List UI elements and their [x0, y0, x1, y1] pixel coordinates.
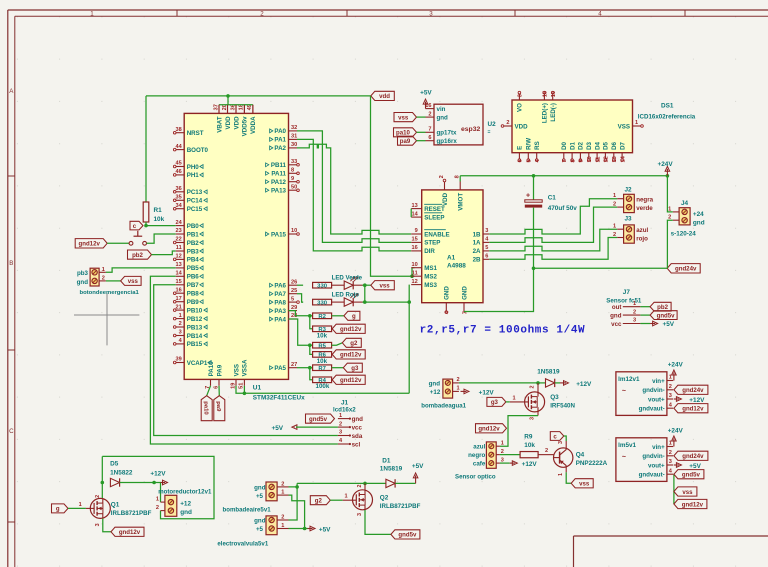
svg-text:+24V: +24V: [668, 361, 684, 368]
svg-text:lcd16x2: lcd16x2: [333, 407, 356, 414]
svg-text:azul: azul: [636, 227, 648, 234]
svg-text:PA12: PA12: [271, 179, 287, 186]
svg-text:PB5: PB5: [187, 265, 200, 272]
svg-text:vcc: vcc: [352, 425, 363, 432]
svg-text:PA6: PA6: [274, 283, 286, 290]
svg-text:PB13: PB13: [187, 324, 203, 331]
svg-text:vcc: vcc: [611, 321, 622, 328]
svg-text:J3: J3: [625, 216, 633, 223]
svg-text:3: 3: [485, 228, 488, 234]
svg-text:VDD: VDD: [225, 116, 232, 130]
svg-text:1: 1: [179, 313, 182, 319]
svg-text:VDD5v: VDD5v: [242, 116, 249, 137]
svg-text:PB7: PB7: [187, 282, 200, 289]
svg-text:3: 3: [558, 441, 564, 444]
svg-text:50: 50: [291, 184, 297, 190]
svg-text:2: 2: [613, 232, 616, 238]
svg-text:+5V: +5V: [663, 321, 675, 328]
svg-text:2: 2: [281, 481, 284, 487]
svg-text:PA15: PA15: [271, 231, 287, 238]
svg-text:3: 3: [429, 10, 433, 17]
svg-text:32: 32: [291, 125, 297, 131]
svg-text:+12V: +12V: [576, 381, 592, 388]
svg-text:+24V: +24V: [668, 427, 684, 434]
svg-text:+5: +5: [256, 526, 264, 533]
svg-text:vout+: vout+: [648, 396, 665, 403]
svg-text:bombadeaire5v1: bombadeaire5v1: [223, 506, 272, 513]
svg-text:r2,r5,r7 = 100ohms 1/4W: r2,r5,r7 = 100ohms 1/4W: [420, 325, 586, 337]
svg-text:vss: vss: [379, 283, 390, 290]
svg-text:motoreductor12v1: motoreductor12v1: [158, 488, 212, 495]
svg-text:10: 10: [411, 262, 417, 268]
svg-text:10k: 10k: [154, 216, 165, 223]
svg-text:lm5v1: lm5v1: [618, 442, 636, 449]
svg-text:vin+: vin+: [652, 378, 665, 385]
svg-text:VMOT: VMOT: [458, 193, 465, 211]
svg-text:+5: +5: [256, 493, 264, 500]
svg-text:R9: R9: [524, 434, 533, 441]
svg-text:44: 44: [175, 144, 182, 150]
svg-text:8: 8: [570, 159, 576, 162]
svg-text:gndvin-: gndvin-: [642, 387, 664, 394]
svg-text:3: 3: [357, 513, 363, 516]
svg-text:VSSA: VSSA: [242, 359, 249, 376]
svg-text:PH1: PH1: [187, 172, 200, 179]
svg-text:J2: J2: [625, 187, 633, 194]
svg-text:gnd: gnd: [180, 509, 192, 516]
svg-text:6: 6: [428, 135, 431, 141]
svg-text:10k: 10k: [317, 358, 328, 365]
svg-text:lm12v1: lm12v1: [618, 376, 640, 383]
svg-text:11: 11: [176, 245, 182, 251]
svg-text:PB0: PB0: [187, 223, 200, 230]
svg-text:9: 9: [291, 176, 294, 182]
svg-text:1: 1: [501, 440, 504, 446]
svg-text:2: 2: [545, 448, 548, 454]
svg-text:2B: 2B: [473, 257, 481, 264]
svg-text:+24V: +24V: [658, 161, 674, 168]
svg-text:pa10: pa10: [396, 130, 411, 137]
svg-text:lCD16x02referencia: lCD16x02referencia: [638, 114, 696, 121]
svg-text:16: 16: [551, 91, 557, 97]
svg-text:3: 3: [95, 523, 101, 526]
svg-text:14: 14: [175, 271, 182, 277]
svg-text:2: 2: [156, 505, 159, 511]
svg-text:ENABLE: ENABLE: [424, 231, 449, 238]
svg-text:gnd5v: gnd5v: [682, 472, 701, 479]
svg-text:PA3: PA3: [274, 308, 286, 315]
svg-text:4: 4: [598, 10, 602, 17]
svg-text:5: 5: [485, 245, 488, 251]
svg-text:16: 16: [411, 245, 417, 251]
svg-text:pa9: pa9: [400, 138, 411, 145]
svg-text:+5V: +5V: [689, 463, 701, 470]
svg-text:DIR: DIR: [424, 248, 435, 255]
svg-text:D5: D5: [110, 461, 119, 468]
svg-text:VDD: VDD: [515, 123, 529, 130]
svg-text:gnd24v: gnd24v: [682, 453, 704, 460]
svg-text:D1: D1: [569, 141, 576, 149]
svg-text:1B: 1B: [473, 231, 481, 238]
svg-text:bombadeagua1: bombadeagua1: [421, 403, 466, 410]
svg-text:VSS: VSS: [618, 123, 630, 130]
svg-text:IRLB8721PBF: IRLB8721PBF: [111, 510, 152, 517]
svg-text:esp32: esp32: [461, 126, 480, 133]
svg-text:STEP: STEP: [424, 240, 440, 247]
svg-text:46: 46: [175, 169, 181, 175]
svg-text:gnd24v: gnd24v: [675, 266, 697, 273]
svg-text:g: g: [352, 313, 356, 320]
svg-text:out: out: [612, 304, 622, 311]
svg-text:15: 15: [543, 91, 549, 97]
svg-text:15: 15: [175, 279, 181, 285]
svg-text:PB2: PB2: [187, 240, 200, 247]
svg-text:Q1: Q1: [111, 501, 120, 508]
svg-text:PC14: PC14: [187, 198, 203, 205]
svg-text:36: 36: [175, 186, 181, 192]
svg-text:PC13: PC13: [187, 189, 203, 196]
svg-text:IRLB8721PBF: IRLB8721PBF: [380, 503, 421, 510]
svg-text:12: 12: [604, 156, 610, 162]
svg-text:gnd12v: gnd12v: [340, 377, 362, 384]
svg-text:6: 6: [518, 159, 524, 162]
svg-text:15: 15: [411, 237, 417, 243]
svg-text:pb2: pb2: [657, 304, 668, 311]
svg-text:Q3: Q3: [550, 394, 559, 401]
svg-text:34: 34: [175, 203, 182, 209]
svg-text:gnd5v: gnd5v: [398, 532, 417, 539]
svg-text:SLEEP: SLEEP: [424, 214, 444, 221]
svg-text:LED Verde: LED Verde: [332, 275, 363, 282]
svg-text:gnd: gnd: [610, 312, 622, 319]
svg-text:vss: vss: [579, 481, 590, 488]
svg-text:PA10: PA10: [208, 361, 215, 377]
svg-text:2: 2: [613, 202, 616, 208]
svg-text:J4: J4: [681, 200, 689, 207]
svg-text:negra: negra: [636, 196, 653, 203]
svg-text:37: 37: [213, 104, 219, 110]
svg-text:+12V: +12V: [689, 397, 705, 404]
svg-text:VDD: VDD: [233, 116, 240, 130]
svg-text:DS1: DS1: [661, 103, 674, 110]
svg-text:Sensor optico: Sensor optico: [455, 474, 496, 481]
svg-text:6: 6: [485, 254, 488, 260]
svg-text:9: 9: [579, 159, 585, 162]
svg-text:1: 1: [90, 10, 94, 17]
svg-text:R/W: R/W: [526, 138, 533, 150]
svg-text:GND: GND: [444, 286, 451, 300]
svg-text:3: 3: [179, 330, 182, 336]
svg-text:gnd12v: gnd12v: [119, 529, 141, 536]
svg-text:g2: g2: [350, 340, 358, 347]
svg-text:cafe: cafe: [473, 461, 486, 468]
svg-text:GND: GND: [461, 286, 468, 300]
svg-text:PB15: PB15: [187, 341, 203, 348]
svg-text:330: 330: [317, 283, 328, 289]
svg-text:2: 2: [529, 386, 535, 389]
svg-text:330: 330: [317, 300, 328, 306]
svg-text:VBAT: VBAT: [216, 116, 223, 133]
svg-text:+5V: +5V: [420, 90, 432, 97]
svg-text:100k: 100k: [316, 383, 330, 390]
svg-text:R1: R1: [154, 207, 163, 214]
svg-text:gnd: gnd: [77, 279, 89, 286]
svg-text:PB14: PB14: [187, 333, 203, 340]
svg-text:sda: sda: [352, 433, 363, 440]
svg-text:5: 5: [527, 159, 533, 162]
svg-text:g: g: [56, 506, 60, 513]
svg-text:vss: vss: [398, 114, 409, 121]
svg-text:MS1: MS1: [424, 265, 437, 272]
svg-text:U2: U2: [488, 121, 497, 128]
svg-text:1: 1: [345, 494, 348, 500]
svg-text:PA7: PA7: [274, 291, 286, 298]
svg-text:39: 39: [175, 357, 181, 363]
svg-text:2: 2: [428, 111, 431, 117]
svg-text:2A: 2A: [473, 248, 481, 255]
svg-text:electrovalvula5v1: electrovalvula5v1: [217, 540, 268, 547]
svg-text:g3: g3: [491, 399, 499, 406]
svg-text:PA4: PA4: [274, 316, 286, 323]
svg-text:2: 2: [669, 384, 672, 390]
svg-text:vout+: vout+: [648, 462, 665, 469]
svg-text:pb2: pb2: [132, 252, 143, 259]
svg-text:13: 13: [175, 262, 181, 268]
svg-text:gnd: gnd: [429, 380, 441, 387]
svg-text:gnd5v: gnd5v: [309, 416, 328, 423]
svg-text:PB3: PB3: [187, 248, 200, 255]
svg-text:PA1: PA1: [274, 137, 286, 144]
svg-text:1A: 1A: [473, 240, 481, 247]
svg-text:R7: R7: [318, 366, 326, 372]
svg-text:1: 1: [513, 395, 516, 401]
svg-text:1: 1: [281, 490, 284, 496]
svg-text:1: 1: [613, 224, 616, 230]
svg-text:10k: 10k: [524, 442, 535, 449]
svg-text:10: 10: [587, 156, 593, 162]
svg-text:D1: D1: [382, 457, 391, 464]
svg-text:+12V: +12V: [479, 389, 495, 396]
svg-text:MS3: MS3: [424, 282, 437, 289]
svg-text:gp17tx: gp17tx: [437, 130, 458, 137]
svg-text:470uf 50v: 470uf 50v: [548, 205, 578, 212]
svg-text:3: 3: [501, 457, 504, 463]
svg-text:U1: U1: [253, 385, 262, 392]
svg-text:2: 2: [95, 495, 101, 498]
svg-text:9: 9: [415, 228, 418, 234]
svg-text:1N5819: 1N5819: [380, 466, 403, 473]
svg-text:8: 8: [291, 168, 294, 174]
svg-text:2: 2: [339, 421, 342, 427]
svg-text:pa10: pa10: [202, 401, 208, 415]
svg-text:gnd12v: gnd12v: [682, 406, 704, 413]
svg-text:10: 10: [291, 228, 297, 234]
svg-text:1: 1: [457, 386, 460, 392]
svg-text:J1: J1: [341, 399, 349, 406]
svg-text:PA13: PA13: [271, 188, 287, 195]
svg-text:gnd24v: gnd24v: [682, 387, 704, 394]
svg-text:gnd: gnd: [693, 219, 705, 226]
svg-text:1: 1: [669, 375, 672, 381]
svg-text:botondeemergencia1: botondeemergencia1: [80, 290, 140, 296]
svg-text:14: 14: [620, 155, 626, 162]
svg-text:PB11: PB11: [271, 162, 287, 169]
svg-text:A4988: A4988: [447, 263, 466, 270]
svg-text:gnd12v: gnd12v: [340, 352, 362, 359]
svg-text:Q4: Q4: [576, 452, 585, 459]
svg-text:NRST: NRST: [187, 130, 204, 137]
svg-text:gp16rx: gp16rx: [437, 138, 458, 145]
svg-text:13: 13: [612, 156, 618, 162]
svg-text:2: 2: [357, 485, 363, 488]
svg-text:PB9: PB9: [187, 299, 200, 306]
svg-text:VCAP1: VCAP1: [187, 360, 208, 367]
svg-text:PH0: PH0: [187, 164, 200, 171]
svg-text:PB12: PB12: [187, 316, 203, 323]
svg-text:25: 25: [291, 288, 297, 294]
svg-text:vdd: vdd: [379, 93, 390, 100]
svg-text:38: 38: [175, 127, 181, 133]
svg-text:2: 2: [281, 515, 284, 521]
svg-text:gnd: gnd: [254, 517, 266, 524]
svg-text:26: 26: [291, 279, 297, 285]
svg-text:Q2: Q2: [380, 494, 389, 501]
svg-text:+24: +24: [693, 211, 704, 218]
svg-text:2: 2: [506, 120, 509, 126]
svg-text:2: 2: [179, 321, 182, 327]
svg-text:gnd12v: gnd12v: [79, 241, 101, 248]
svg-text:45: 45: [175, 161, 181, 167]
svg-text:VDD: VDD: [442, 192, 449, 206]
svg-text:R5: R5: [318, 343, 326, 349]
svg-text:=: =: [488, 130, 491, 136]
svg-text:~: ~: [622, 454, 626, 461]
svg-text:PB6: PB6: [187, 274, 200, 281]
svg-text:LED Rojo: LED Rojo: [332, 292, 360, 299]
svg-text:22: 22: [175, 237, 181, 243]
svg-text:s-120-24: s-120-24: [671, 231, 697, 238]
svg-text:12: 12: [175, 254, 181, 260]
svg-text:D0: D0: [561, 141, 568, 149]
svg-text:PB4: PB4: [187, 257, 200, 264]
svg-text:35: 35: [175, 195, 181, 201]
svg-text:vin: vin: [437, 106, 446, 113]
svg-text:PA8: PA8: [274, 299, 286, 306]
svg-text:STM32F411CEUx: STM32F411CEUx: [253, 394, 305, 401]
svg-text:B: B: [9, 260, 13, 267]
svg-text:+12V: +12V: [522, 461, 538, 468]
svg-text:D6: D6: [611, 141, 618, 149]
svg-text:2: 2: [669, 450, 672, 456]
svg-text:PB1: PB1: [187, 231, 200, 238]
svg-text:2: 2: [633, 309, 636, 315]
svg-text:+12V: +12V: [150, 471, 166, 478]
svg-text:27: 27: [291, 362, 297, 368]
svg-text:PC15: PC15: [187, 206, 203, 213]
svg-text:2: 2: [260, 10, 264, 17]
svg-text:negro: negro: [468, 452, 485, 459]
svg-text:10k: 10k: [317, 332, 328, 339]
svg-text:gndvaut-: gndvaut-: [639, 472, 665, 479]
svg-text:+: +: [526, 193, 530, 200]
svg-text:R2: R2: [318, 314, 326, 320]
svg-text:PB8: PB8: [187, 291, 200, 298]
svg-text:VDDA: VDDA: [250, 116, 257, 134]
svg-text:+5V: +5V: [272, 425, 284, 432]
svg-text:PA0: PA0: [274, 128, 286, 135]
svg-text:1: 1: [156, 496, 159, 502]
svg-text:C1: C1: [548, 195, 557, 202]
svg-text:PNP2222A: PNP2222A: [576, 460, 608, 467]
svg-text:D5: D5: [603, 141, 610, 149]
svg-text:vin+: vin+: [652, 444, 665, 451]
svg-text:24: 24: [175, 220, 182, 226]
svg-text:gnd12v: gnd12v: [478, 426, 500, 433]
svg-text:vss: vss: [128, 278, 139, 285]
svg-text:VSS: VSS: [233, 364, 240, 376]
svg-text:+12: +12: [430, 389, 441, 396]
svg-text:+5V: +5V: [412, 463, 424, 470]
svg-text:pa9: pa9: [215, 401, 221, 412]
svg-text:17: 17: [175, 296, 181, 302]
svg-text:RS: RS: [534, 141, 541, 150]
svg-text:PA2: PA2: [274, 145, 286, 152]
svg-text:LED(-): LED(-): [550, 103, 557, 122]
svg-text:1: 1: [339, 413, 342, 419]
svg-text:PA5: PA5: [274, 365, 286, 372]
svg-text:1: 1: [558, 473, 564, 476]
svg-text:gndvaut-: gndvaut-: [639, 406, 665, 413]
svg-text:g3: g3: [351, 365, 359, 372]
svg-text:11: 11: [595, 157, 601, 163]
svg-text:23: 23: [175, 228, 181, 234]
svg-text:29: 29: [291, 305, 297, 311]
svg-text:1N5819: 1N5819: [537, 368, 560, 375]
svg-text:azul: azul: [473, 444, 485, 451]
svg-text:16: 16: [175, 287, 181, 293]
svg-text:PB10: PB10: [187, 307, 203, 314]
svg-text:g2: g2: [315, 498, 323, 505]
svg-text:gndvin-: gndvin-: [642, 453, 664, 460]
svg-text:E: E: [517, 146, 524, 150]
svg-text:33: 33: [291, 159, 297, 165]
svg-text:1: 1: [79, 502, 82, 508]
svg-text:A1: A1: [447, 255, 456, 262]
svg-text:2: 2: [501, 449, 504, 455]
svg-text:rojo: rojo: [636, 235, 648, 242]
svg-text:3: 3: [529, 417, 535, 420]
svg-text:IRF540N: IRF540N: [550, 403, 575, 410]
svg-text:BOOT0: BOOT0: [187, 147, 209, 154]
svg-text:scl: scl: [352, 441, 361, 448]
svg-text:verde: verde: [636, 205, 653, 212]
svg-text:D2: D2: [578, 141, 585, 149]
svg-text:3: 3: [339, 430, 342, 436]
svg-text:PA9: PA9: [216, 364, 223, 376]
svg-text:21: 21: [175, 304, 181, 310]
svg-text:D7: D7: [619, 141, 626, 149]
svg-text:+5V: +5V: [319, 526, 331, 533]
svg-text:VO: VO: [517, 103, 524, 112]
svg-text:14: 14: [411, 211, 418, 217]
svg-text:vss: vss: [682, 489, 693, 496]
svg-text:J7: J7: [623, 289, 631, 296]
svg-text:1: 1: [669, 441, 672, 447]
svg-text:D4: D4: [594, 141, 601, 149]
svg-text:PA11: PA11: [271, 171, 286, 178]
svg-text:2: 2: [439, 175, 445, 178]
svg-text:3: 3: [633, 318, 636, 324]
